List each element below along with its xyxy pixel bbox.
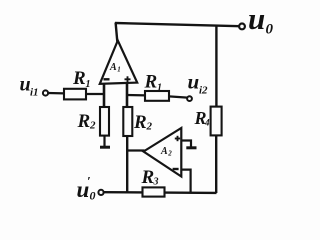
svg-text:A: A [109, 62, 117, 73]
wire: A2 output to vertical node [127, 149, 145, 151]
svg-text:4: 4 [204, 118, 210, 128]
plus mark of A1 [125, 76, 131, 82]
svg-text:R: R [144, 72, 158, 93]
label u0' [77, 174, 96, 203]
node: u0 output terminal [239, 24, 245, 30]
op-amp U1 (A1) triangle [100, 41, 137, 84]
ground under R2-left [100, 146, 110, 149]
node: u0' terminal [98, 190, 103, 195]
svg-text:A: A [160, 146, 168, 157]
svg-text:R: R [77, 111, 91, 132]
resistor R2 (right, vertical) [123, 107, 132, 136]
minus mark of A2 [173, 168, 179, 170]
svg-text:i2: i2 [199, 85, 208, 97]
label R1 (left) [72, 68, 91, 90]
wire: A1 output apex to top rail [116, 23, 118, 42]
svg-text:2: 2 [89, 120, 96, 132]
svg-text:u: u [188, 70, 200, 94]
label R2 (right) [133, 112, 153, 133]
resistor R2 (left, vertical) [100, 107, 109, 136]
node: ui2 input terminal [187, 96, 192, 101]
ground at A2 plus input [186, 146, 196, 149]
label R1 (right) [144, 72, 163, 94]
wire: A1 inverting input vertical down to R2-left [103, 83, 106, 108]
label ui1 [20, 74, 39, 99]
label R2 (left) [77, 111, 97, 132]
resistor R1 (right) [145, 91, 169, 101]
node: ui1 input terminal [43, 90, 48, 95]
label R4 [194, 108, 211, 128]
wire: non-inverting rail to R1-right [127, 94, 146, 97]
svg-text:R: R [72, 68, 86, 89]
op-amp U2 (A2) triangle pointing left [144, 128, 182, 177]
wire: A1 non-inverting input vertical down to R2-right [126, 83, 129, 108]
svg-text:1: 1 [117, 66, 121, 74]
resistor R1 (left) [64, 89, 86, 100]
svg-text:3: 3 [153, 177, 159, 188]
wire: u0' terminal along bottom rail to right corner [104, 191, 217, 194]
resistor R4 (vertical) [211, 107, 222, 136]
label A1 inside op-amp [109, 62, 121, 74]
label ui2 [188, 70, 209, 97]
label u0 [248, 1, 274, 38]
wire: R1-right to ui2 terminal [169, 96, 188, 97]
wire: top rail from A1 output to u0 terminal [115, 23, 240, 26]
resistor R3 [143, 187, 165, 196]
svg-text:R: R [133, 112, 147, 133]
wire: top rail junction down to R4 [215, 25, 217, 107]
svg-text:1: 1 [86, 79, 91, 90]
label A2 inside op-amp [160, 146, 172, 158]
wire: R2-left bottom stub [103, 136, 105, 146]
wire: R2-right bottom down to bottom rail (A2 output node) [126, 136, 128, 193]
wire: ui1 terminal to R1-left [48, 92, 64, 95]
svg-text:2: 2 [146, 121, 153, 133]
minus mark of A1 [104, 78, 110, 80]
wire: R1-left to inverting input vertical [86, 93, 105, 95]
svg-text:2: 2 [167, 150, 172, 158]
svg-text:u: u [248, 1, 265, 36]
wire: A2 plus input to ground [181, 141, 191, 148]
plus mark of A2 [175, 136, 180, 141]
svg-text:i1: i1 [30, 87, 39, 99]
svg-text:0: 0 [90, 189, 96, 203]
wire: A2 minus input down to bottom rail [181, 170, 191, 193]
svg-text:′: ′ [87, 174, 91, 189]
label R3 [141, 167, 159, 188]
svg-text:R: R [141, 167, 155, 188]
svg-text:0: 0 [266, 22, 274, 38]
svg-text:1: 1 [157, 83, 162, 94]
wire: R4 bottom down to bottom rail corner [215, 135, 217, 193]
svg-text:u: u [20, 74, 31, 96]
